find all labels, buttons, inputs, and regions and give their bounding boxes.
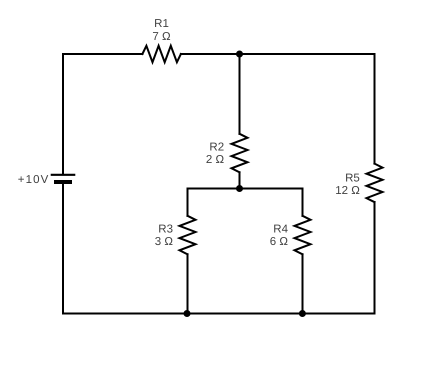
svg-text:2 Ω: 2 Ω (206, 154, 225, 166)
wire right side lower (374, 202, 376, 313)
svg-text:12 Ω: 12 Ω (335, 185, 360, 197)
svg-text:3 Ω: 3 Ω (155, 236, 174, 248)
wire left side lower (62, 184, 64, 314)
bottom wire (63, 313, 375, 315)
resistor R5 (367, 164, 383, 203)
junction node top (236, 51, 243, 58)
svg-text:7 Ω: 7 Ω (152, 31, 171, 43)
battery V1 short plate (56, 180, 70, 184)
wire top-left to R1 (63, 53, 142, 55)
resistor R2 (232, 134, 248, 173)
middle node wire (188, 188, 303, 190)
wire R4 to bottom (302, 254, 304, 313)
svg-text:R1: R1 (154, 18, 169, 30)
wire left side upper (battery top) (62, 54, 64, 174)
svg-text:6 Ω: 6 Ω (270, 236, 289, 248)
svg-text:R2: R2 (209, 142, 224, 154)
svg-text:R4: R4 (273, 224, 288, 236)
wire R1 to top-right (181, 53, 375, 55)
svg-text:+10V: +10V (18, 174, 50, 186)
svg-text:R5: R5 (345, 173, 360, 185)
wire node A down to R2 (239, 54, 241, 134)
junction node middle (236, 185, 243, 192)
wire middle node down to R4 (302, 189, 304, 216)
wire R2 to middle node (239, 172, 241, 188)
battery V1 long plate (52, 174, 74, 176)
wire middle node down to R3 (187, 189, 189, 216)
svg-text:R3: R3 (158, 224, 173, 236)
junction node bottom-left (184, 310, 191, 317)
wire R3 to bottom (187, 254, 189, 313)
resistor R4 (295, 216, 311, 255)
resistor R3 (180, 216, 196, 255)
wire right side upper (374, 54, 376, 164)
junction node bottom-right (299, 310, 306, 317)
resistor R1 (142, 46, 181, 62)
